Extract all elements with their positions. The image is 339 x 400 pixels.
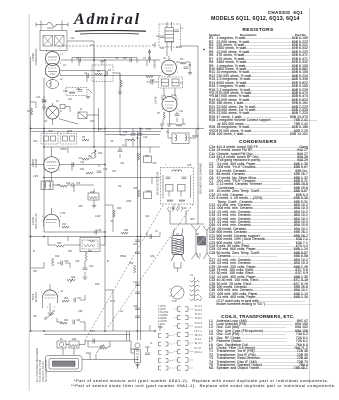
resistor R15b [138,190,140,197]
capacitor C2 [86,73,88,78]
mixer cluster [60,105,65,109]
wire IF1 to V2 [181,45,199,47]
resistor R22 [62,300,69,302]
resistor R8 [176,124,182,126]
resistor R1 [31,108,33,115]
tube V1 12BE6 converter [46,52,60,66]
capacitor C27 [73,298,75,303]
wire bottom bus [31,330,156,332]
junction dots [43,146,45,148]
wire AVC line [60,75,161,77]
tube V1b 12BA6 FM RF [46,106,59,119]
footnotes [74,379,329,382]
volume control R10 [94,150,96,158]
wire B+ bus [31,128,205,130]
resistor R18 [56,245,64,247]
ground [135,364,139,366]
capacitor C30 [149,234,151,239]
resistor ladder chart [194,277,196,280]
ground [92,205,96,207]
tube V4 12BA6 second IF [44,157,60,173]
ground [86,96,90,98]
capacitor C33 [129,58,131,63]
ground [167,123,171,125]
capacitor C32 [94,230,96,235]
oscillator dashed box [66,88,87,96]
resistor R17 [62,226,69,228]
resistor R29 [100,347,107,349]
resistor R19 [52,258,54,266]
socket legend symbols col2 [178,307,181,311]
resistor R9 [82,139,89,141]
resistor R12 [60,185,67,187]
capacitor C36 [92,339,94,344]
wire aux bus [105,134,160,136]
capacitor C16 [97,170,102,172]
small box on rail [144,156,152,163]
tube V2 12BA6 IF amplifier [162,60,177,75]
RESISTORS header [209,28,307,33]
oscillator padder box [92,65,113,82]
wire left rail [30,57,32,331]
resistor R25 [121,232,128,234]
wire antenna to IF [67,40,94,42]
wire grid bus [65,59,160,61]
antenna L1 loop lead [36,24,47,26]
resistor R16 [134,265,136,273]
capacitor C18 [131,133,136,135]
wire [44,231,105,233]
node junction dots [93,59,95,61]
oscillator coil L2 [47,80,59,89]
wire osc rail [93,48,95,148]
capacitor C25 [60,261,62,266]
ground [83,276,87,278]
wire B+ rail pair [137,131,139,340]
capacitor C15 [71,183,73,188]
resistor R26 [120,80,122,87]
resistor R24 [113,210,115,217]
capacitor C31 [118,149,123,151]
output transformer on speaker [198,237,206,246]
tuning wand circle [171,286,184,299]
capacitor C19 [138,133,143,135]
wire aux bottom [85,340,131,342]
IF transformer T2 [159,77,183,88]
wire stubs [78,60,80,66]
resistor R13 [86,172,93,174]
small box on rail 2 [144,192,152,199]
sealed module box 1 [41,134,58,145]
tube V3 12AT6 detector [162,97,177,112]
voltage chart text [158,305,168,329]
tone switch arrow [96,344,104,353]
dashed gang linkage line [85,205,163,340]
wire heater bus [44,146,160,148]
capacitor C11 [175,113,180,115]
choke L4 [125,139,135,141]
capacitor C22 [135,283,140,285]
output transformer box [172,133,189,144]
small marks right of jack [145,346,150,348]
wire plate lead [60,70,106,72]
capacitor C23 [135,307,140,309]
transformer T3 [41,181,53,190]
tube V6 50C5 output [43,290,58,298]
capacitor C14 [71,162,73,167]
wire [59,164,105,166]
loop antenna assembly box [40,31,67,51]
ground [160,123,164,125]
resistor R27 [146,76,153,78]
resistor R11 [82,158,89,160]
dial scale assembly [46,356,83,372]
sealed module box 2 [61,134,77,145]
FM section dashed boundary [58,45,150,47]
capacitor C21 [135,239,140,241]
on-off switch S1 [46,314,52,318]
wire AVC bus [31,131,162,133]
pilot lamp assembly [57,341,66,348]
phono jack [135,343,140,348]
IF transformer T1 [159,24,181,47]
resistor R7 [163,112,165,119]
FM box outline [72,57,137,59]
ground [188,72,192,74]
COILS header [209,314,307,319]
resistor R15 [138,153,140,160]
small box aux [88,193,99,200]
filter choke L9 [172,236,184,255]
ground [43,104,45,107]
capacitor C29 [72,320,74,325]
capacitor C1 [78,58,80,63]
resistor R21 [85,252,87,261]
socket legend symbols col1 [159,334,162,338]
wire [44,177,160,179]
resistor R5 screen [180,62,186,64]
trimmer arrows [42,99,46,103]
resistor R23 [60,322,67,324]
wire cathode [49,303,51,312]
resistor R20 volume [67,279,75,281]
wire dial lead [82,359,138,361]
resistor pair below ratio det [168,207,174,212]
capacitor C26 [83,267,88,269]
tube V5 12AV6 audio [44,214,60,222]
osc trimmer column [149,49,151,63]
ratio detector module box [161,168,194,205]
ground [48,312,52,314]
filter module box [80,238,100,252]
capacitor C10 [150,80,152,85]
Admiral logo [74,11,141,29]
capacitor C8 [184,66,189,68]
CONDENSERS header [209,140,307,145]
capacitor C4 gang trimmer [42,99,47,101]
